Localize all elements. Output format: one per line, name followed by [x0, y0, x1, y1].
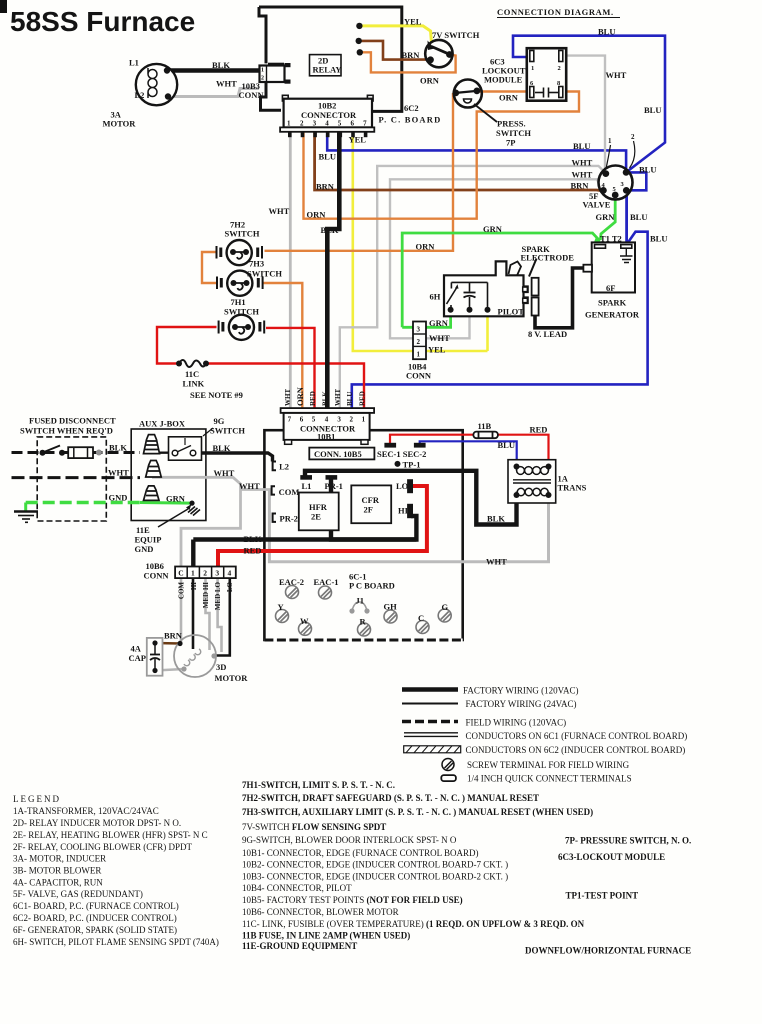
valve 5F gas [599, 133, 636, 200]
svg-text:10B3- CONNECTOR, EDGE (INDU: 10B3- CONNECTOR, EDGE (INDUCER CONTROL B… [242, 872, 508, 882]
svg-text:3: 3 [215, 569, 219, 578]
svg-text:9G-SWITCH, BLOWER DOOR INT: 9G-SWITCH, BLOWER DOOR INTERLOCK SPST- N… [242, 835, 457, 845]
svg-text:ELECTRODE: ELECTRODE [521, 253, 575, 263]
svg-text:BLK: BLK [322, 391, 330, 406]
svg-text:3: 3 [313, 120, 317, 128]
svg-text:LO: LO [396, 481, 409, 491]
svg-text:1A-TRANSFORMER, 120VAC/24VAC: 1A-TRANSFORMER, 120VAC/24VAC [13, 806, 159, 816]
legend quick connect [441, 775, 456, 781]
svg-text:C: C [418, 613, 424, 623]
svg-text:CONDUCTORS ON 6C1 (FURNACE CON: CONDUCTORS ON 6C1 (FURNACE CONTROL BOARD… [466, 731, 688, 741]
svg-text:6: 6 [300, 416, 304, 424]
svg-text:1: 1 [287, 120, 291, 128]
svg-text:6F- GENERATOR, SPARK (SOLID: 6F- GENERATOR, SPARK (SOLID STATE) [13, 925, 177, 935]
legend screw terminal [442, 759, 454, 771]
svg-text:WHT: WHT [334, 389, 342, 406]
terminal L1 [301, 476, 312, 479]
switch 7V flow sensing [425, 40, 453, 67]
svg-text:2: 2 [350, 416, 354, 424]
svg-text:5F- VALVE, GAS (REDUNDANT): 5F- VALVE, GAS (REDUNDANT) [13, 889, 143, 899]
svg-text:BLU: BLU [498, 440, 515, 450]
wire blue: valve pin2-pin3 loop [627, 172, 646, 190]
svg-text:R: R [360, 617, 367, 627]
svg-text:WHT: WHT [269, 206, 290, 216]
svg-text:7H2-SWITCH, DRAFT SAFEGUARD: 7H2-SWITCH, DRAFT SAFEGUARD (S. P. S. T.… [242, 793, 539, 803]
svg-text:GENERATOR: GENERATOR [585, 310, 640, 320]
svg-text:BLK: BLK [212, 60, 230, 70]
svg-text:COM: COM [279, 487, 300, 497]
svg-text:7H3-SWITCH, AUXILIARY LIMIT: 7H3-SWITCH, AUXILIARY LIMIT (S. P. S. T.… [242, 807, 593, 817]
svg-text:11E-GROUND EQUIPMENT: 11E-GROUND EQUIPMENT [242, 941, 357, 951]
ground symbol at fused disconnect [14, 512, 38, 523]
svg-text:3: 3 [417, 326, 421, 334]
wire gray: 10B6 pin2 to motor [206, 578, 210, 650]
svg-text:ORN: ORN [416, 242, 436, 252]
wire orange: 7H2 left to 7H3 left [202, 252, 216, 283]
wire orange: press switch left down long run to 7H2 right [265, 93, 454, 251]
svg-text:WHT: WHT [572, 170, 593, 180]
wire black thick: L1 terminal to transformer primary via edge [305, 471, 517, 525]
svg-text:SCREW TERMINAL FOR FIELD WIRIN: SCREW TERMINAL FOR FIELD WIRING [467, 760, 630, 770]
wire gray dashed: field WHT into j-box [12, 476, 141, 479]
terminal PR-1 [326, 476, 337, 479]
svg-text:1: 1 [191, 569, 195, 578]
wire orange: press switch right to lockout pin6 [477, 90, 528, 92]
wire yellow: 10B2 pin6 down and right to 10B4 pin1 [353, 131, 488, 351]
wire green: 10B4 pin3 up and long run right to spark generator T1 [402, 233, 600, 327]
wire gray: lockout pin2 to valve pin1 [562, 56, 605, 173]
svg-text:BRN: BRN [316, 182, 335, 192]
svg-text:5: 5 [338, 120, 342, 128]
svg-text:7H1-SWITCH, LIMIT S. P. S. T: 7H1-SWITCH, LIMIT S. P. S. T. - N. C. [242, 780, 395, 790]
svg-text:1: 1 [608, 137, 612, 145]
svg-text:EAC-1: EAC-1 [314, 577, 339, 587]
wire black: 9G switch to L2 [152, 452, 171, 454]
terminal LO [408, 480, 413, 493]
svg-text:2D- RELAY INDUCER MOTOR DP: 2D- RELAY INDUCER MOTOR DPST- N O. [13, 818, 181, 828]
svg-text:BLU: BLU [650, 234, 667, 244]
svg-text:7: 7 [288, 416, 292, 424]
svg-text:WHT: WHT [606, 70, 627, 80]
fuse 11B body [473, 432, 498, 439]
wire brown: pc-board dot2 to 7V switch lower-left [359, 41, 429, 60]
svg-text:LO: LO [226, 581, 234, 592]
svg-text:BRN: BRN [164, 631, 183, 641]
relay CFR 2F box [351, 485, 391, 523]
svg-text:10B6- CONNECTOR, BLOWER MOT: 10B6- CONNECTOR, BLOWER MOTOR [242, 907, 399, 917]
svg-text:6H- SWITCH, PILOT FLAME SEN: 6H- SWITCH, PILOT FLAME SENSING SPDT (74… [13, 937, 219, 947]
svg-text:1/4 INCH QUICK CONNECT TERMINA: 1/4 INCH QUICK CONNECT TERMINALS [467, 774, 632, 784]
svg-text:2: 2 [203, 569, 207, 578]
svg-text:WHT: WHT [284, 389, 292, 406]
svg-text:ORN: ORN [307, 210, 327, 220]
svg-text:C: C [178, 569, 183, 578]
svg-text:58SS Furnace: 58SS Furnace [10, 6, 195, 37]
svg-text:PR-2: PR-2 [280, 514, 298, 524]
svg-text:ORN: ORN [420, 76, 440, 86]
wire gray: j-box WHT to COM and 10B6 pin C [152, 477, 241, 567]
wire blue: 10B2 pin4 down, long run right to valve pin2 [327, 131, 626, 172]
svg-text:2: 2 [261, 76, 264, 82]
svg-text:FACTORY WIRING (24VAC): FACTORY WIRING (24VAC) [466, 699, 577, 709]
svg-text:CFR: CFR [362, 495, 380, 505]
svg-text:BLU: BLU [639, 165, 656, 175]
svg-text:BLU: BLU [319, 152, 336, 162]
svg-text:SWITCH: SWITCH [224, 307, 259, 317]
svg-text:SWITCH: SWITCH [225, 229, 260, 239]
svg-text:PRESS.: PRESS. [497, 119, 526, 129]
svg-text:2E- RELAY, HEATING BLOWER (H: 2E- RELAY, HEATING BLOWER (HFR) SPST- N … [13, 830, 208, 840]
svg-text:BLU: BLU [630, 212, 647, 222]
wire red: 7H1 right down to 10B1 pin5 [266, 328, 315, 409]
vertical wire labels above 10B1 [284, 386, 367, 406]
svg-text:7V SWITCH: 7V SWITCH [432, 30, 480, 40]
terminal PR-2 [273, 514, 276, 522]
svg-text:10B4- CONNECTOR, PILOT: 10B4- CONNECTOR, PILOT [242, 883, 352, 893]
wire brown: 10B2 pin3 down, long run right to valve pin4 [315, 131, 603, 191]
svg-text:BLU: BLU [598, 27, 615, 37]
svg-text:CONN: CONN [239, 90, 265, 100]
svg-text:P C BOARD: P C BOARD [349, 581, 395, 591]
wire black: motor L1 to 10B3 pin1 [167, 68, 259, 72]
arrowhead green T1 [594, 236, 602, 243]
svg-text:GRN: GRN [596, 212, 616, 222]
terminal COM [272, 486, 275, 494]
legend factory wiring 120vac [402, 687, 458, 692]
svg-text:10B2- CONNECTOR, EDGE (INDU: 10B2- CONNECTOR, EDGE (INDUCER CONTROL B… [242, 860, 508, 870]
wire red thick: LO terminal loop to 10B6 pin3 [218, 486, 427, 567]
svg-text:11B FUSE, IN LINE 2AMP (W: 11B FUSE, IN LINE 2AMP (WHEN USED) [242, 931, 410, 941]
svg-text:P. C. BOARD: P. C. BOARD [379, 115, 442, 125]
screw terminal Y [276, 610, 289, 623]
svg-text:4: 4 [325, 416, 329, 424]
fused disconnect switch dashed box [37, 437, 106, 521]
pc-board terminal dots [356, 23, 362, 29]
svg-text:L2: L2 [279, 462, 289, 472]
svg-text:VALVE: VALVE [583, 200, 611, 210]
wire black: 10B6 pin1 to 3D motor [192, 578, 195, 649]
svg-text:2F- RELAY, COOLING BLOWER (: 2F- RELAY, COOLING BLOWER (CFR) DPDT [13, 842, 193, 852]
svg-text:HI: HI [398, 506, 409, 516]
wire blue: SEC-2 to transformer primary left [420, 441, 517, 465]
svg-text:BLK: BLK [244, 534, 262, 544]
svg-text:COM: COM [178, 582, 186, 600]
svg-text:SWITCH: SWITCH [247, 269, 282, 279]
wire green: inside j-box to equip gnd lug [140, 501, 191, 505]
svg-text:7P- PRESSURE SWITCH, N. O.: 7P- PRESSURE SWITCH, N. O. [565, 836, 691, 846]
wire orange: lockout pin8 loop down to 10B2 pin2 [304, 92, 580, 219]
svg-text:9G: 9G [214, 416, 225, 426]
svg-text:10B6: 10B6 [146, 561, 164, 571]
svg-text:RED: RED [530, 425, 548, 435]
svg-text:7P: 7P [506, 138, 515, 148]
svg-text:CONDUCTORS ON 6C2 (INDUCER CON: CONDUCTORS ON 6C2 (INDUCER CONTROL BOARD… [466, 745, 686, 755]
jumper J1 [352, 602, 367, 611]
spark electrode insulator [523, 259, 539, 316]
screw terminal R [358, 623, 371, 636]
svg-text:SWITCH WHEN REQ'D: SWITCH WHEN REQ'D [20, 426, 113, 436]
svg-text:2: 2 [631, 133, 635, 141]
svg-text:1: 1 [362, 416, 366, 424]
svg-text:10B2: 10B2 [318, 101, 336, 111]
svg-text:10B5- FACTORY TEST POINTS: 10B5- FACTORY TEST POINTS (NOT FOR FIELD… [242, 895, 463, 905]
svg-text:MED HI: MED HI [202, 582, 210, 609]
svg-text:MED LO: MED LO [214, 581, 222, 610]
svg-text:BLK: BLK [487, 514, 505, 524]
wire nut 2 [146, 461, 162, 478]
aux j-box [131, 429, 206, 521]
svg-text:3A- MOTOR, INDUCER: 3A- MOTOR, INDUCER [13, 854, 106, 864]
svg-text:11B: 11B [478, 421, 492, 431]
svg-text:YEL: YEL [349, 135, 367, 145]
svg-text:RED: RED [309, 391, 317, 406]
svg-text:CONN: CONN [144, 571, 170, 581]
svg-text:SEE NOTE #9: SEE NOTE #9 [190, 390, 243, 400]
screw terminal EAC-1 [319, 586, 332, 599]
svg-text:1: 1 [531, 65, 534, 72]
svg-text:6F: 6F [606, 283, 615, 293]
svg-text:HI: HI [190, 582, 198, 590]
wire black: 10B2 pin5 down to 10B1 pin4 [327, 131, 339, 409]
svg-text:4A- CAPACITOR, RUN: 4A- CAPACITOR, RUN [13, 878, 103, 888]
svg-text:WHT: WHT [486, 557, 507, 567]
svg-text:W: W [300, 616, 309, 626]
svg-text:2F: 2F [364, 505, 373, 515]
wire yellow: pc-board dot to 7V switch [359, 26, 431, 43]
svg-text:EAC-2: EAC-2 [279, 577, 304, 587]
screw terminal C [416, 621, 429, 634]
svg-text:GND: GND [109, 493, 128, 503]
svg-text:2: 2 [417, 338, 421, 346]
svg-text:10B1: 10B1 [317, 431, 335, 441]
svg-text:4: 4 [228, 569, 232, 578]
motor 3A inducer [136, 64, 177, 105]
wire black: 8V lead from electrode to spark generator [535, 268, 583, 328]
svg-text:11C- LINK, FUSIBLE (OVER T: 11C- LINK, FUSIBLE (OVER TEMPERATURE) (1… [242, 919, 585, 929]
wire red: 7H1 left to 11C link to 10B1 pin1 [157, 327, 217, 364]
svg-text:YEL: YEL [428, 345, 446, 355]
wire black dashed: field BLK into j-box [12, 451, 141, 454]
connector 10B6 [175, 567, 236, 579]
connector 10B3 [260, 63, 291, 84]
wire red: SEC-1 through 11B fuse to transformer primary right [390, 435, 474, 445]
equip gnd lug 11E [158, 501, 200, 528]
svg-text:RED: RED [244, 546, 262, 556]
switch 7H3 auxiliary limit [217, 271, 263, 296]
svg-text:SWITCH: SWITCH [210, 426, 245, 436]
svg-text:T1 T2: T1 T2 [600, 234, 622, 244]
legend conductors 6C1 [404, 732, 458, 734]
vertical labels under 10B6 [178, 581, 235, 610]
svg-text:6C2- BOARD, P.C. (INDUCER C: 6C2- BOARD, P.C. (INDUCER CONTROL) [13, 913, 177, 923]
svg-text:GRN: GRN [483, 224, 503, 234]
wire black thick: PR-1 / HI / 10B6 pin1 net [331, 477, 416, 540]
svg-text:BRN: BRN [571, 181, 590, 191]
screw terminal G [438, 609, 451, 622]
svg-text:ORN: ORN [499, 93, 519, 103]
wire gray: motor L2 to 10B3 pin2 [168, 89, 259, 97]
svg-text:ORN: ORN [295, 386, 305, 406]
wire green: 10B4 pin3 right to 6H dot1 [402, 311, 450, 327]
svg-text:MOTOR: MOTOR [103, 119, 137, 129]
svg-text:LINK: LINK [183, 379, 205, 389]
svg-text:PILOT: PILOT [498, 307, 525, 317]
legend field wiring [402, 720, 458, 724]
wire green: valve pin5 down to T1 run [600, 194, 615, 240]
svg-text:11C: 11C [185, 369, 199, 379]
transformer 1A [508, 460, 556, 503]
svg-text:G: G [442, 602, 449, 612]
wire gray: transformer secondary right down, left, up to COM [269, 491, 548, 562]
corner scan mark [0, 0, 7, 13]
terminal HI [408, 505, 413, 518]
svg-text:PR-1: PR-1 [325, 481, 343, 491]
svg-text:3B- MOTOR BLOWER: 3B- MOTOR BLOWER [13, 866, 101, 876]
svg-text:2E: 2E [311, 512, 321, 522]
svg-text:BLK: BLK [109, 443, 127, 453]
wire gray: 10B6 pinC to motor [180, 567, 183, 643]
svg-text:7H3: 7H3 [249, 259, 264, 269]
connector 10B4 pins [413, 322, 426, 360]
svg-text:L1: L1 [129, 58, 139, 68]
legend conductors 6C2 [404, 746, 461, 753]
wire orange: 7H3 right down to 10B1 pin6 [264, 283, 303, 409]
svg-text:10B1- CONNECTOR, EDGE (FURN: 10B1- CONNECTOR, EDGE (FURNACE CONTROL B… [242, 848, 479, 858]
svg-text:FIELD WIRING (120VAC): FIELD WIRING (120VAC) [466, 718, 567, 728]
svg-text:FUSED DISCONNECT: FUSED DISCONNECT [29, 416, 116, 426]
svg-text:L1: L1 [302, 481, 312, 491]
svg-text:WHT: WHT [572, 158, 593, 168]
svg-text:SEC-1 SEC-2: SEC-1 SEC-2 [377, 449, 426, 459]
switch 7H2 limit [217, 240, 263, 265]
wire gray: valve pin4 run left, down to 10B4 pin2 [390, 179, 603, 338]
P.C. board 6C2 outline [259, 7, 402, 111]
svg-text:RELAY: RELAY [313, 65, 342, 75]
svg-text:TP1-TEST POINT: TP1-TEST POINT [566, 891, 639, 901]
svg-text:RED: RED [359, 391, 367, 406]
svg-text:4: 4 [325, 120, 329, 128]
control board big box 6C1 [264, 430, 462, 640]
svg-text:CONNECTOR: CONNECTOR [301, 110, 357, 120]
svg-text:AUX J-BOX: AUX J-BOX [139, 419, 186, 429]
svg-text:MODULE: MODULE [484, 75, 523, 85]
svg-text:7H1: 7H1 [231, 297, 246, 307]
pilot assembly with 6H switch [444, 261, 528, 316]
wire gray: WHT stub to COM terminal [241, 488, 272, 491]
wire blue: valve pin3 down to spark generator T2 [625, 173, 628, 245]
svg-text:EQUIP: EQUIP [135, 535, 162, 545]
svg-text:SPARK: SPARK [598, 298, 627, 308]
wire yellow: 10B4 pin1 right to 6H dot3 [486, 311, 489, 351]
svg-text:WHT: WHT [216, 79, 237, 89]
9G switch box [169, 428, 214, 460]
terminals SEC-1 SEC-2 [385, 443, 396, 447]
svg-text:6C3-LOCKOUT MODULE: 6C3-LOCKOUT MODULE [558, 852, 665, 862]
svg-text:Y: Y [278, 602, 284, 612]
svg-text:CONNECTION DIAGRAM.: CONNECTION DIAGRAM. [497, 7, 614, 17]
svg-text:BLK: BLK [213, 443, 231, 453]
wire green: gnd drop to ground symbol [24, 503, 27, 511]
relay HFR 2E box [299, 493, 339, 531]
svg-text:BLU: BLU [346, 392, 354, 406]
wire blue: T2 tap down long run to 10B1 pin2 [352, 232, 648, 409]
svg-text:CONN: CONN [406, 371, 432, 381]
svg-text:7: 7 [363, 120, 367, 128]
svg-text:6H: 6H [430, 292, 441, 302]
svg-text:7V-SWITCH FLOW SENSING SPD: 7V-SWITCH FLOW SENSING SPDT [242, 822, 386, 832]
svg-text:BLU: BLU [644, 105, 661, 115]
test point TP-1 [395, 461, 401, 467]
screw terminal GH [384, 610, 397, 623]
wire gray: 10B2 pin1 down to 10B1 pin7 [289, 131, 292, 409]
svg-text:LEGEND: LEGEND [13, 794, 61, 804]
wire orange: pc-board dot3 to 7V switch right [360, 52, 456, 72]
fused disconnect internals [40, 446, 102, 459]
svg-text:BLU: BLU [573, 141, 590, 151]
svg-text:SWITCH: SWITCH [496, 128, 531, 138]
svg-text:1: 1 [261, 68, 264, 74]
relay 2D box [310, 55, 342, 76]
svg-text:5: 5 [312, 416, 316, 424]
connector 10B1 [281, 408, 375, 444]
svg-text:HFR: HFR [309, 502, 328, 512]
lockout module 6C3 box [527, 48, 566, 100]
motor 3D blower [174, 635, 217, 677]
svg-text:YEL: YEL [404, 17, 422, 27]
screw terminal W [299, 622, 312, 635]
wire green dashed: field GND into j-box [26, 501, 140, 504]
wire nut 3 [144, 486, 160, 501]
spark generator 6F box [583, 242, 635, 293]
svg-text:BLK: BLK [321, 225, 339, 235]
extra right column labels [525, 836, 691, 956]
svg-text:3D: 3D [216, 662, 226, 672]
wire blue: lockout pin1 to top run to 5F valve pin2 [513, 36, 665, 171]
svg-text:6C2: 6C2 [404, 103, 419, 113]
svg-text:FACTORY WIRING (120VAC): FACTORY WIRING (120VAC) [463, 686, 579, 696]
fusible link 11C wavy [179, 360, 206, 367]
svg-text:6: 6 [351, 120, 355, 128]
svg-text:TRANS: TRANS [558, 483, 587, 493]
svg-text:3: 3 [337, 416, 341, 424]
svg-text:L2: L2 [135, 90, 145, 100]
svg-text:MOTOR: MOTOR [215, 673, 249, 683]
wire brown: capacitor top to motor [155, 642, 180, 645]
connector 10B2 [280, 95, 374, 137]
wire gray: valve pin1 run left, down to 10B1 pin3 [340, 166, 606, 409]
svg-text:DOWNFLOW/HORIZONTAL FURNACE: DOWNFLOW/HORIZONTAL FURNACE [525, 946, 691, 956]
wire gray: capacitor bottom to motor [155, 669, 184, 671]
svg-text:WHT: WHT [429, 333, 450, 343]
svg-text:J1: J1 [356, 596, 365, 606]
svg-text:2: 2 [558, 65, 561, 72]
switch 7H1 limit [219, 315, 265, 340]
wire black: 10B6 pin4 to 3D motor [216, 578, 230, 655]
wire gray: 10B6 pin3 to motor [218, 578, 222, 652]
svg-text:2: 2 [300, 120, 304, 128]
svg-text:CAP: CAP [129, 653, 146, 663]
switch 7P pressure [452, 80, 497, 123]
svg-text:1: 1 [417, 351, 421, 359]
svg-text:GH: GH [384, 602, 398, 612]
svg-text:4A: 4A [131, 644, 142, 654]
svg-text:GRN: GRN [166, 494, 186, 504]
svg-text:WHT: WHT [214, 468, 235, 478]
svg-text:8 V. LEAD: 8 V. LEAD [528, 329, 567, 339]
svg-text:WHT: WHT [239, 481, 260, 491]
capacitor 4A run [147, 638, 163, 676]
svg-text:BRN: BRN [402, 50, 421, 60]
